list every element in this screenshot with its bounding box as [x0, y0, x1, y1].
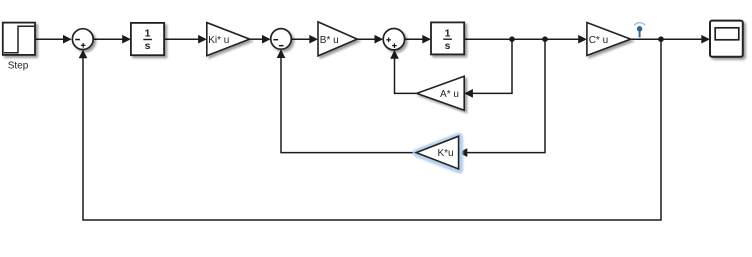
- wire sum S3 to integrator I2: [405, 38, 424, 40]
- svg-text:C* u: C* u: [589, 35, 608, 46]
- svg-text:s: s: [445, 40, 451, 52]
- sum S1: [72, 29, 93, 50]
- arrowhead into sum S2 left: [262, 35, 271, 44]
- sign minus on sum S2 bottom input: [279, 45, 284, 47]
- wire step to sum S1: [35, 38, 64, 40]
- arrowhead into sum S3 left: [375, 35, 384, 44]
- wire gain A output up into sum S3 bottom: [395, 58, 417, 94]
- sign plus on sum S3 bottom input: [392, 43, 397, 48]
- wire K-loop tap down and left into gain K: [466, 39, 545, 152]
- gain K (points left, selected): [416, 136, 458, 169]
- wire integrator I2 to gain C: [464, 38, 579, 40]
- arrowhead into sum S3 bottom: [390, 50, 399, 59]
- svg-text:1: 1: [145, 28, 151, 40]
- arrowhead into gain A right face: [464, 89, 473, 98]
- svg-text:Step: Step: [8, 61, 29, 72]
- arrowhead into gain C: [578, 35, 587, 44]
- integrator I1: [131, 23, 164, 55]
- arrowhead into integrator I2: [422, 35, 431, 44]
- junction node at outer-loop tap: [658, 36, 664, 42]
- arrowhead into scope: [701, 35, 710, 44]
- arrowhead into sum S1 bottom: [79, 50, 88, 59]
- wire gain C to scope: [631, 38, 703, 40]
- gain C: [587, 23, 631, 56]
- selection halo of gain K: [416, 136, 459, 170]
- svg-text:B* u: B* u: [320, 35, 339, 46]
- sign plus on sum S3 left input: [386, 38, 391, 43]
- wire gain Ki to sum S2: [250, 38, 264, 40]
- block Step: [3, 23, 35, 55]
- block Scope: [710, 21, 743, 57]
- junction node at K-loop tap: [542, 36, 548, 42]
- sum S3: [383, 29, 404, 50]
- arrowhead into gain K right face: [459, 148, 468, 157]
- svg-text:1: 1: [445, 27, 451, 39]
- arrowhead into gain Ki: [198, 35, 207, 44]
- wire gain K output up into sum S2 bottom: [281, 57, 416, 153]
- svg-text:s: s: [145, 40, 151, 52]
- sign minus on sum S1 left input: [75, 39, 80, 41]
- fraction bar of integrator I1: [143, 39, 152, 41]
- sum S2: [271, 29, 292, 50]
- junction node at A-loop tap: [509, 36, 515, 42]
- sign minus on sum S2 left input: [273, 39, 278, 41]
- arrowhead into sum S1 left: [63, 35, 72, 44]
- svg-text:A* u: A* u: [440, 89, 459, 100]
- wire integrator I1 to gain Ki: [164, 38, 199, 40]
- wire sum S2 to gain B: [291, 38, 310, 40]
- wire A-loop tap down and left into gain A: [472, 39, 512, 93]
- gain Ki: [207, 23, 250, 56]
- sign plus on sum S1 bottom input: [81, 43, 86, 48]
- wire outer feedback loop down, left and up into sum S1 bottom: [83, 39, 661, 220]
- arrowhead into sum S2 bottom: [277, 49, 286, 58]
- fraction bar of integrator I2: [443, 38, 452, 40]
- wire sum S1 to integrator I1: [93, 38, 123, 40]
- arrowhead into gain B: [309, 35, 318, 44]
- svg-text:K*u: K*u: [437, 148, 453, 159]
- gain B: [318, 22, 357, 56]
- integrator I2: [431, 22, 464, 54]
- wire gain B to sum S3: [357, 38, 375, 40]
- signal logging badge (antenna): [634, 23, 645, 38]
- gain A (points left): [417, 76, 464, 110]
- arrowhead into integrator I1: [122, 35, 131, 44]
- svg-text:Ki* u: Ki* u: [208, 35, 229, 46]
